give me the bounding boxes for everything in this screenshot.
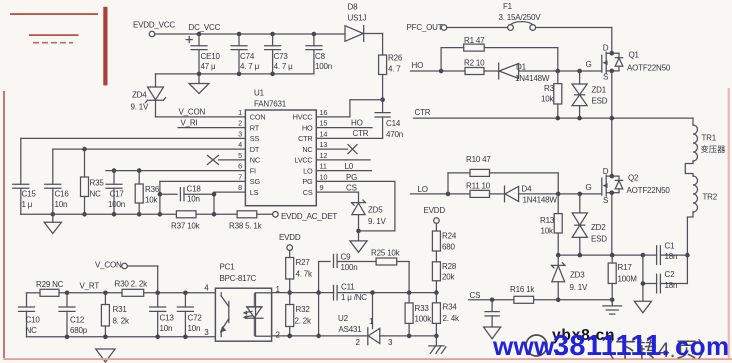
resistor R27 4.7k: [286, 250, 313, 295]
resistor R13 10k: [540, 194, 562, 255]
svg-text:DT: DT: [250, 145, 260, 154]
wire PG pin10 loop: [316, 173, 395, 231]
wire CTR rail: [414, 108, 694, 120]
svg-text:9. 1V: 9. 1V: [131, 103, 150, 112]
svg-text:FI: FI: [250, 166, 256, 175]
wire R26 to HVCC node: [380, 75, 385, 102]
svg-text:R35: R35: [90, 179, 105, 188]
svg-text:100M: 100M: [618, 275, 638, 284]
wire fuse to Q1 drain: [536, 28, 612, 54]
wire CTR pin14 stub: [316, 129, 382, 138]
wire source rail: [556, 253, 645, 258]
wire FI pin6: [106, 168, 245, 173]
wire D8 to R26: [364, 34, 383, 56]
capacitor C8 100n: [306, 32, 332, 74]
svg-text:ZD3: ZD3: [570, 270, 585, 279]
svg-text:NC: NC: [250, 156, 260, 165]
wire bottom rail left: [27, 335, 216, 340]
svg-text:EVDD: EVDD: [424, 206, 446, 215]
terminal EVDD right: [424, 206, 446, 223]
wire ref pin: [372, 293, 374, 329]
svg-text:LO: LO: [418, 185, 428, 194]
svg-text:D: D: [603, 167, 609, 176]
red border bottom: [3, 358, 732, 360]
svg-text:CTR: CTR: [415, 108, 431, 117]
svg-text:U1: U1: [254, 89, 265, 98]
svg-text:D: D: [603, 44, 609, 53]
svg-text:2. 2k: 2. 2k: [295, 316, 313, 325]
svg-text:R38 5. 1k: R38 5. 1k: [229, 221, 263, 230]
resistor R31 8.2k: [101, 293, 130, 337]
capacitor C12 680p: [59, 293, 88, 337]
svg-text:4. 7k: 4. 7k: [296, 269, 314, 278]
svg-text:V_CON: V_CON: [95, 260, 122, 269]
svg-text:C17: C17: [110, 190, 125, 199]
resistor R34 2.4k: [432, 293, 460, 339]
wire D1 to gate: [519, 69, 602, 74]
red mark bar: [103, 7, 107, 86]
svg-text:C74: C74: [240, 52, 255, 61]
svg-text:R26: R26: [388, 54, 403, 63]
wire PFC to fuse: [447, 27, 508, 29]
resistor R26 4.7: [379, 54, 403, 75]
resistor R17 100M: [608, 255, 637, 302]
capacitor C16 10n: [45, 149, 70, 217]
svg-text:R29 NC: R29 NC: [36, 280, 64, 289]
svg-text:V_CON: V_CON: [179, 108, 206, 117]
ground under R31: [96, 349, 115, 362]
svg-text:C9: C9: [341, 253, 352, 262]
svg-text:18n: 18n: [665, 281, 678, 290]
svg-text:F1: F1: [503, 2, 513, 11]
svg-text:R24: R24: [442, 232, 457, 241]
wire HO pin15 stub: [316, 118, 372, 127]
svg-text:3: 3: [238, 129, 242, 138]
svg-text:EVDD: EVDD: [279, 233, 301, 242]
wire top VCC rail: [155, 33, 345, 35]
svg-text:1: 1: [369, 317, 374, 326]
capacitor C15 1u: [13, 138, 37, 214]
svg-text:PG: PG: [302, 177, 313, 186]
svg-text:15: 15: [320, 119, 328, 128]
svg-text:PFC_OUT: PFC_OUT: [407, 23, 443, 32]
svg-text:C10: C10: [26, 316, 41, 325]
svg-text:10: 10: [320, 172, 328, 181]
svg-text:AOTF22N50: AOTF22N50: [627, 186, 671, 195]
svg-text:10k: 10k: [145, 196, 158, 205]
svg-text:EVDD_AC_DET: EVDD_AC_DET: [281, 212, 337, 221]
svg-text:R16 1k: R16 1k: [510, 285, 535, 294]
terminal PFC_OUT: [407, 23, 447, 32]
svg-text:PG: PG: [346, 173, 357, 182]
red mark line1: [10, 13, 98, 15]
svg-text:Q2: Q2: [628, 174, 639, 183]
resistor R24 680: [432, 223, 456, 251]
fuse F1 3.15A/250V: [499, 2, 542, 30]
watermark page note: [526, 335, 703, 362]
svg-text:SG: SG: [250, 177, 261, 186]
resistor R2 10: [464, 58, 485, 74]
svg-text:10n: 10n: [188, 324, 201, 333]
capacitor C unlabeled: [485, 300, 499, 327]
svg-text:ZD1: ZD1: [592, 85, 607, 94]
svg-text:SS: SS: [250, 134, 260, 143]
svg-text:CS: CS: [303, 188, 313, 197]
svg-text:2: 2: [356, 338, 361, 347]
zener ZD4 9.1V: [131, 74, 166, 117]
capacitor C11 1u/NC: [334, 283, 368, 303]
svg-text:C72: C72: [188, 314, 203, 323]
svg-text:4. 7: 4. 7: [388, 65, 401, 74]
wire R25 down: [397, 262, 409, 293]
svg-text:11: 11: [320, 162, 327, 171]
node DC_VCC: [189, 23, 221, 36]
wire HVCC pin16: [316, 100, 382, 117]
capacitor C74 4.7u: [231, 32, 260, 74]
transformer TR1: [693, 125, 725, 161]
svg-text:1N4148W: 1N4148W: [523, 195, 558, 204]
svg-text:R3: R3: [544, 84, 555, 93]
svg-text:100n: 100n: [315, 62, 332, 71]
ground under cap: [484, 327, 501, 339]
svg-text:2: 2: [238, 119, 242, 128]
svg-text:com: com: [675, 331, 729, 361]
svg-text:S: S: [603, 73, 608, 82]
svg-text:C1: C1: [665, 242, 676, 251]
svg-text:R25 10k: R25 10k: [371, 249, 401, 258]
svg-text:R2 10: R2 10: [464, 58, 485, 67]
svg-text:ESD: ESD: [592, 97, 608, 106]
ground under ZD5: [350, 231, 367, 252]
svg-text:CTR: CTR: [298, 134, 312, 143]
svg-text:13: 13: [320, 140, 328, 149]
resistor R28 20k: [432, 251, 456, 295]
svg-text:R1 47: R1 47: [464, 36, 485, 45]
svg-text:C12: C12: [70, 316, 85, 325]
svg-text:4. 7 μ: 4. 7 μ: [274, 62, 294, 71]
wire fb mid row: [273, 290, 334, 295]
red mark dashed: [33, 42, 73, 44]
svg-text:C2: C2: [665, 270, 676, 279]
svg-text:LS: LS: [250, 188, 259, 197]
wire bottom-left rail: [21, 213, 177, 215]
capacitor C17 100n: [106, 171, 125, 217]
svg-text:100k: 100k: [415, 314, 433, 323]
svg-text:FAN7631: FAN7631: [254, 100, 287, 109]
svg-text:C14: C14: [386, 119, 401, 128]
wire Q2 source down: [611, 193, 613, 255]
svg-text:9: 9: [320, 183, 324, 192]
wire CS row: [469, 291, 514, 302]
capacitor C18 10n: [160, 184, 214, 203]
opto-coupler PC1 BPC-817C: [204, 263, 280, 342]
wire V_CON pin1: [156, 108, 246, 117]
svg-text:C11: C11: [341, 283, 355, 292]
svg-text:ESD: ESD: [591, 234, 607, 243]
svg-text:3811111.: 3811111.: [553, 330, 670, 362]
svg-text:18n: 18n: [665, 252, 678, 261]
op-amp U1 FAN7631: [238, 89, 327, 206]
svg-text:4. 7 μ: 4. 7 μ: [240, 62, 260, 71]
svg-text:470n: 470n: [386, 130, 403, 139]
resistor R1 47: [441, 36, 558, 71]
svg-text:100n: 100n: [108, 200, 125, 209]
svg-text:NC: NC: [26, 326, 38, 335]
resistor R35 NC: [81, 149, 105, 217]
svg-text:R37 10k: R37 10k: [171, 221, 201, 230]
terminal EVDD_AC_DET: [257, 212, 338, 221]
svg-text:NC: NC: [90, 190, 102, 199]
no-connect X pin13: [316, 145, 357, 154]
svg-text:14: 14: [320, 129, 328, 138]
wire cap bottom rail: [156, 72, 314, 77]
wire SG pin7: [158, 181, 246, 216]
svg-text:4: 4: [204, 284, 209, 293]
svg-text:V_RT: V_RT: [80, 282, 100, 291]
watermark 3811111: [492, 330, 729, 362]
svg-text:10k: 10k: [541, 226, 554, 235]
svg-text:100n: 100n: [341, 263, 358, 272]
svg-text:U2: U2: [338, 314, 349, 323]
wire TR2 down: [685, 212, 693, 284]
svg-text:C18: C18: [187, 184, 202, 193]
ground under CE10: [189, 74, 209, 94]
svg-text:R33: R33: [415, 304, 430, 313]
svg-text:2. 4k: 2. 4k: [443, 314, 461, 323]
svg-text:R13: R13: [540, 216, 555, 225]
svg-text:TR2: TR2: [703, 193, 718, 202]
svg-text:LVCC: LVCC: [294, 156, 312, 165]
wire HO line: [411, 61, 466, 73]
wire D4 to gate: [519, 192, 602, 197]
svg-text:CS: CS: [470, 291, 481, 300]
wire LO line: [411, 185, 471, 196]
svg-text:R10 47: R10 47: [466, 155, 491, 164]
svg-text:3: 3: [388, 338, 393, 347]
svg-text:3. 15A/250V: 3. 15A/250V: [499, 13, 542, 22]
terminal EVDD_VCC: [133, 20, 175, 37]
svg-text:BPC-817C: BPC-817C: [220, 274, 257, 283]
svg-text:8: 8: [238, 183, 242, 192]
svg-text:HO: HO: [302, 123, 313, 132]
svg-text:D4: D4: [522, 184, 533, 193]
zener ZD3 9.1V: [551, 255, 588, 302]
svg-text:HVCC: HVCC: [293, 113, 313, 122]
wire LS pin8: [212, 192, 246, 217]
svg-text:HO: HO: [351, 118, 363, 127]
svg-text:NC: NC: [302, 145, 312, 154]
svg-text:TR1: TR1: [702, 134, 717, 143]
resistor R38 5.1k: [229, 211, 263, 231]
svg-text:CE10: CE10: [201, 52, 221, 61]
svg-text:D1: D1: [516, 62, 527, 71]
svg-text:47 μ: 47 μ: [201, 62, 217, 71]
svg-text:C73: C73: [274, 52, 289, 61]
svg-text:7: 7: [238, 172, 242, 181]
svg-text:20k: 20k: [442, 272, 455, 281]
svg-text:R17: R17: [618, 263, 633, 272]
wire fb mid row right: [337, 290, 436, 295]
wire C9 branch: [316, 262, 321, 339]
svg-text:RT: RT: [250, 123, 260, 132]
svg-text:D8: D8: [348, 3, 359, 12]
svg-text:EVDD_VCC: EVDD_VCC: [133, 20, 175, 29]
svg-text:C8: C8: [315, 52, 326, 61]
zener ZD2 ESD: [572, 194, 607, 255]
transformer TR2: [693, 176, 718, 212]
svg-text:Q1: Q1: [629, 51, 640, 60]
resistor R30 2.2k: [115, 280, 149, 297]
svg-text:8. 2k: 8. 2k: [113, 317, 131, 326]
resistor R25 10k: [371, 249, 401, 266]
svg-text:CTR: CTR: [353, 129, 369, 138]
svg-text:CS: CS: [346, 183, 357, 192]
resistor R16 1k: [510, 285, 535, 304]
capacitor C73 4.7u: [265, 32, 294, 74]
svg-text:1: 1: [238, 108, 242, 117]
capacitor C14 470n: [375, 100, 403, 139]
svg-text:AS431: AS431: [339, 325, 363, 334]
watermark ybx8.cn: [552, 327, 615, 344]
svg-text:US1J: US1J: [348, 14, 367, 23]
svg-text:2: 2: [276, 330, 281, 339]
wire V_RT row: [27, 282, 216, 295]
svg-text:ZD4: ZD4: [132, 91, 147, 100]
svg-text:1 μ: 1 μ: [22, 200, 33, 209]
capacitor CE10 47u: [186, 34, 220, 74]
wire U2 to R33 R34: [380, 335, 437, 337]
terminal EVDD left: [279, 233, 301, 250]
capacitor C72 10n: [177, 293, 202, 337]
wire CS pin9 stub: [316, 183, 358, 202]
svg-text:10n: 10n: [55, 200, 68, 209]
resistor R29 NC: [36, 280, 64, 296]
svg-text:ZD5: ZD5: [368, 205, 383, 214]
svg-text:L0: L0: [345, 162, 354, 171]
svg-text:R32: R32: [296, 305, 311, 314]
svg-text:10n: 10n: [187, 195, 200, 204]
wire CTR to TR1: [692, 118, 694, 125]
svg-text:1N4148W: 1N4148W: [515, 74, 550, 83]
wire Q2 drain from CTR: [611, 118, 613, 176]
wire SS pin3: [21, 137, 246, 139]
resistor R11 10: [466, 182, 491, 198]
capacitor C10 NC: [19, 293, 41, 337]
ground under C16: [44, 214, 61, 233]
svg-text:1 μ /NC: 1 μ /NC: [341, 293, 367, 302]
svg-text:5: 5: [238, 151, 242, 160]
diode D8 US1J: [345, 3, 366, 42]
svg-text:PC1: PC1: [220, 263, 236, 272]
svg-text:AOTF22N50: AOTF22N50: [627, 64, 671, 73]
wire TR1 to TR2 jog: [685, 161, 693, 176]
resistor R37 10k: [171, 211, 201, 231]
resistor R32 2.2k: [286, 293, 312, 339]
svg-text:R27: R27: [296, 258, 311, 267]
capacitor C9 100n: [319, 253, 377, 273]
svg-text:4: 4: [238, 140, 242, 149]
transistor Q2 AOTF22N50: [586, 167, 671, 205]
svg-text:10n: 10n: [160, 324, 173, 333]
wire V_RI pin2: [178, 119, 245, 128]
svg-text:16: 16: [320, 108, 328, 117]
wire LO pin11 stub: [316, 162, 371, 171]
svg-text:10k: 10k: [541, 95, 554, 104]
resistor R10 47: [448, 155, 558, 194]
red border left: [3, 91, 5, 358]
capacitor C2 18n: [643, 270, 688, 293]
svg-text:CON: CON: [250, 113, 266, 122]
svg-text:LO: LO: [303, 166, 313, 175]
svg-text:12: 12: [320, 151, 328, 160]
svg-text:DC_VCC: DC_VCC: [189, 23, 221, 32]
wire C1 C2 left: [641, 255, 646, 301]
wire R37 to R38: [196, 213, 237, 215]
svg-text:R11 10: R11 10: [466, 182, 491, 191]
diode D1 1N4148W: [484, 62, 550, 83]
svg-text:G: G: [586, 60, 592, 69]
svg-text:G: G: [586, 183, 592, 192]
wire fb bottom rail: [273, 334, 368, 339]
svg-text:C15: C15: [22, 190, 37, 199]
svg-text:3: 3: [204, 328, 209, 337]
resistor R36 10k: [135, 171, 160, 217]
svg-text:ZD2: ZD2: [591, 223, 606, 232]
wire LVCC pin12 stub: [316, 159, 370, 161]
ground chassis under R34: [429, 336, 446, 354]
ground earth under R17: [603, 300, 622, 314]
zener ZD1 ESD: [572, 71, 608, 118]
zener ZD5 9.1V: [352, 200, 387, 233]
svg-text:C16: C16: [55, 190, 70, 199]
svg-text:V_RI: V_RI: [181, 119, 198, 128]
svg-text:6: 6: [238, 162, 242, 171]
svg-text:680: 680: [442, 243, 455, 252]
resistor R33 100k: [405, 293, 432, 339]
svg-text:S: S: [603, 196, 608, 205]
shunt-reg U2 AS431: [338, 314, 393, 347]
resistor R3 10k: [541, 71, 562, 118]
no-connect X pin5: [208, 155, 246, 164]
svg-text:R28: R28: [442, 262, 457, 271]
svg-text:9. 1V: 9. 1V: [368, 217, 387, 226]
wire R16 to ZD3: [534, 299, 613, 301]
svg-text:www.: www.: [492, 331, 561, 361]
diode D4 1N4148W: [490, 184, 558, 204]
svg-text:HO: HO: [412, 61, 424, 70]
svg-text:680p: 680p: [70, 326, 88, 335]
red mark line2: [29, 34, 79, 36]
capacitor C1 18n: [643, 242, 688, 265]
red border right: [728, 88, 730, 359]
transistor Q1 AOTF22N50: [586, 44, 671, 82]
capacitor C13 10n: [150, 293, 175, 337]
svg-text:9. 1V: 9. 1V: [570, 283, 589, 292]
ground under C1 C2: [634, 301, 651, 313]
wire DT pin4: [53, 147, 246, 152]
svg-text:R30 2. 2k: R30 2. 2k: [115, 280, 149, 289]
svg-text:R34: R34: [443, 302, 458, 311]
svg-text:R36: R36: [145, 185, 160, 194]
wire Q1 source to CTR: [611, 71, 613, 118]
wire V_CON branch: [95, 260, 158, 293]
svg-text:C13: C13: [160, 314, 175, 323]
svg-text:R31: R31: [113, 305, 128, 314]
